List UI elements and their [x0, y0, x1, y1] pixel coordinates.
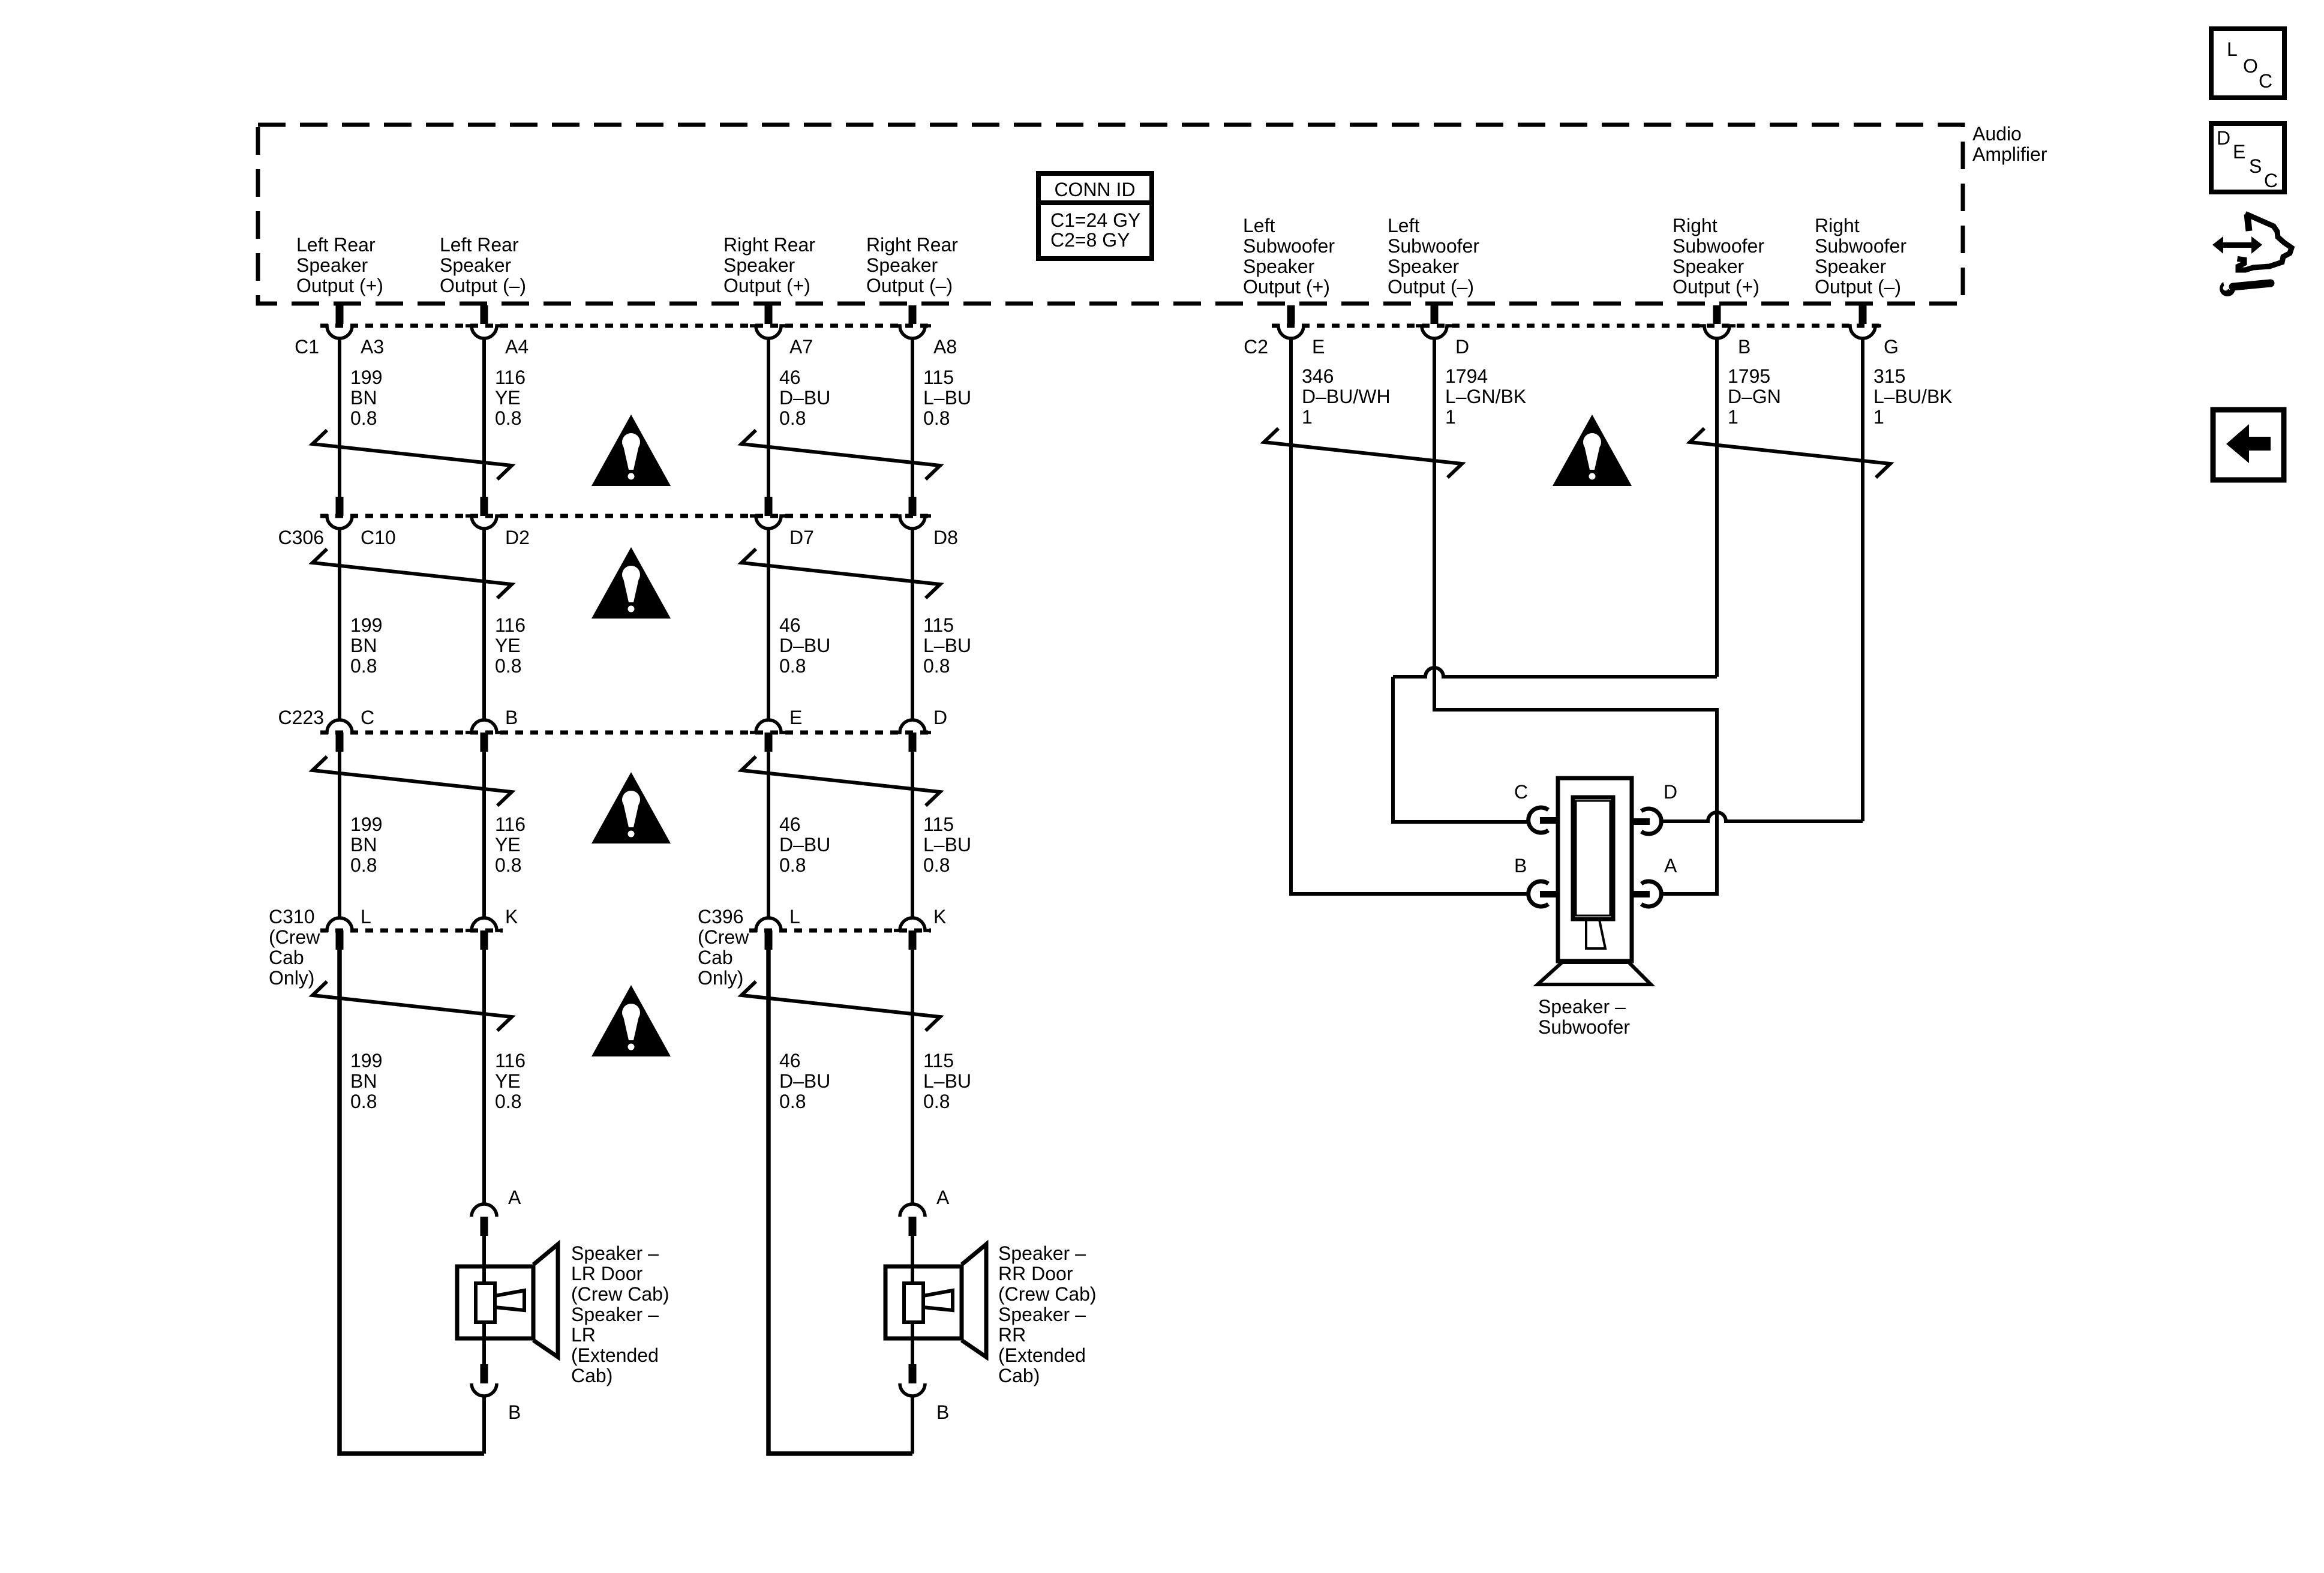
svg-text:Left: Left — [1388, 215, 1419, 236]
amp output terminal pin at x=2391 — [1431, 305, 1439, 324]
wire label 46 D–BU 0.8 — [779, 367, 830, 429]
svg-text:0.8: 0.8 — [350, 854, 377, 876]
icon LOC box (top right) — [2211, 29, 2284, 98]
svg-text:Speaker: Speaker — [1815, 256, 1887, 277]
svg-text:Left Rear: Left Rear — [296, 234, 376, 256]
svg-text:B: B — [1514, 855, 1527, 876]
wire segment x=1521 C306 to C223 — [911, 528, 914, 721]
svg-text:Speaker: Speaker — [723, 254, 795, 276]
svg-text:BN: BN — [350, 1070, 377, 1092]
svg-text:RR: RR — [998, 1324, 1026, 1346]
wire below pin B to bottom loop — [911, 1395, 914, 1454]
connector C396 dashed line — [749, 929, 931, 933]
svg-text:0.8: 0.8 — [779, 407, 806, 429]
svg-text:LR Door: LR Door — [571, 1263, 643, 1284]
svg-text:Left Rear: Left Rear — [440, 234, 519, 256]
svg-text:Speaker: Speaker — [440, 254, 512, 276]
wire label 1794 L–GN/BK 1 — [1445, 365, 1526, 428]
svg-text:1: 1 — [1728, 406, 1739, 428]
svg-text:116: 116 — [495, 367, 526, 388]
svg-text:0.8: 0.8 — [350, 1091, 377, 1112]
wire segment x=807 C223 to C310/C396 — [482, 752, 486, 918]
svg-text:Speaker: Speaker — [1243, 256, 1315, 277]
connector designator C310 (Crew Cab Only) — [269, 906, 320, 989]
svg-text:B: B — [936, 1401, 949, 1423]
connector C306 terminal at x=1281 — [765, 497, 773, 516]
svg-text:0.8: 0.8 — [923, 407, 950, 429]
svg-text:RR Door: RR Door — [998, 1263, 1073, 1284]
amp output terminal pin at x=3105 — [1859, 305, 1867, 324]
wire label 1795 D–GN 1 — [1728, 365, 1781, 428]
connector C306 terminal at x=566 — [336, 497, 344, 516]
speaker LR symbol — [457, 1244, 558, 1357]
amp pin function label at x=494 — [296, 234, 383, 296]
svg-text:A8: A8 — [933, 336, 957, 358]
speaker connector pin A at x=1521 — [900, 1204, 925, 1217]
svg-text:Amplifier: Amplifier — [1972, 143, 2047, 165]
label Audio Amplifier — [1972, 123, 2047, 165]
svg-text:C: C — [2264, 170, 2278, 191]
wire segment x=1281 C306 to C223 — [767, 528, 770, 721]
svg-text:Right: Right — [1673, 215, 1718, 236]
svg-text:C2: C2 — [1244, 336, 1268, 358]
svg-text:Cab: Cab — [698, 947, 733, 968]
svg-text:C1=24 GY: C1=24 GY — [1050, 209, 1140, 231]
svg-text:YE: YE — [495, 834, 521, 855]
wire segment x=566 C223 to C310/C396 — [338, 752, 341, 918]
wire 199 BN from C310-L down to bottom loop — [340, 950, 484, 1454]
svg-text:Subwoofer: Subwoofer — [1243, 235, 1335, 257]
twisted pair marker wires 199/116 — [313, 430, 512, 479]
svg-text:Speaker –: Speaker – — [571, 1304, 659, 1325]
svg-text:Speaker –: Speaker – — [998, 1242, 1086, 1264]
warning triangle note (row 2) — [591, 547, 671, 619]
svg-text:Speaker: Speaker — [1388, 256, 1460, 277]
connector C310/C396 terminal at x=807 — [466, 918, 503, 930]
wire label 46 D–BU 0.8 — [779, 614, 830, 677]
svg-text:(Crew: (Crew — [269, 926, 320, 948]
svg-text:C2=8 GY: C2=8 GY — [1050, 229, 1130, 251]
svg-text:Left: Left — [1243, 215, 1275, 236]
svg-text:E: E — [1312, 336, 1325, 358]
amp output terminal pin at x=1521 — [909, 305, 917, 324]
subwoofer pin C — [1529, 807, 1548, 833]
amp pin function label at x=2072 — [1243, 215, 1335, 298]
warning triangle note (row 3) — [591, 772, 671, 843]
wire label 115 L–BU 0.8 — [923, 614, 971, 677]
svg-text:199: 199 — [350, 614, 382, 636]
wire 1794 L-GN/BK from C2-D down then right and down to subwoofer pin A — [1434, 338, 1717, 894]
svg-text:A3: A3 — [361, 336, 384, 358]
svg-text:O: O — [2243, 55, 2258, 77]
twisted pair marker row 3 right — [741, 757, 940, 806]
svg-text:L–BU: L–BU — [923, 834, 971, 855]
svg-text:C: C — [1514, 781, 1528, 803]
svg-text:116: 116 — [495, 614, 526, 636]
svg-text:0.8: 0.8 — [779, 1091, 806, 1112]
svg-text:CONN ID: CONN ID — [1054, 179, 1135, 200]
connector C310/C396 terminal at x=1281 — [750, 918, 787, 930]
svg-text:0.8: 0.8 — [923, 854, 950, 876]
twisted pair marker wires 346/1794 — [1264, 428, 1462, 478]
svg-text:D8: D8 — [933, 527, 958, 548]
svg-text:D: D — [1455, 336, 1469, 358]
wire label 115 L–BU 0.8 — [923, 1050, 971, 1112]
svg-text:46: 46 — [779, 813, 801, 835]
svg-text:Right Rear: Right Rear — [866, 234, 958, 256]
svg-text:D–BU: D–BU — [779, 387, 830, 409]
connector C310 dashed line — [320, 929, 503, 933]
speaker connector pin A at x=807 — [472, 1204, 497, 1217]
svg-text:L–BU: L–BU — [923, 635, 971, 656]
svg-text:YE: YE — [495, 1070, 521, 1092]
svg-text:115: 115 — [923, 614, 954, 636]
wire label 46 D–BU 0.8 — [779, 1050, 830, 1112]
svg-text:0.8: 0.8 — [923, 1091, 950, 1112]
wire below pin B to bottom loop — [482, 1395, 486, 1454]
amp pin function label at x=2788 — [1673, 215, 1764, 298]
svg-text:Speaker –: Speaker – — [1538, 996, 1626, 1017]
svg-text:BN: BN — [350, 387, 377, 409]
svg-text:1: 1 — [1302, 406, 1313, 428]
svg-text:(Crew: (Crew — [698, 926, 749, 948]
twisted pair marker row 2 left — [313, 549, 512, 598]
svg-text:Cab): Cab) — [998, 1365, 1040, 1386]
svg-text:Output (–): Output (–) — [440, 275, 526, 296]
svg-text:Speaker: Speaker — [296, 254, 368, 276]
wire segment x=566 amp to C306 — [338, 338, 341, 497]
amp output terminal pin at x=1281 — [765, 305, 773, 324]
svg-text:E: E — [2233, 141, 2245, 163]
svg-text:Subwoofer: Subwoofer — [1673, 235, 1764, 257]
amp output terminal pin at x=566 — [336, 305, 344, 324]
svg-text:Audio: Audio — [1972, 123, 2022, 145]
svg-text:0.8: 0.8 — [350, 655, 377, 677]
svg-text:Output (–): Output (–) — [1815, 276, 1901, 298]
connector C223 terminal at x=807 — [466, 720, 503, 733]
svg-text:0.8: 0.8 — [350, 407, 377, 429]
svg-text:L–GN/BK: L–GN/BK — [1445, 386, 1526, 407]
wire label 199 BN 0.8 — [350, 1050, 382, 1112]
svg-text:G: G — [1884, 336, 1899, 358]
icon DESC box — [2211, 124, 2284, 192]
connector designator C396 (Crew Cab Only) — [698, 906, 749, 989]
svg-text:0.8: 0.8 — [495, 407, 521, 429]
svg-text:D7: D7 — [789, 527, 814, 548]
svg-text:Speaker: Speaker — [1673, 256, 1744, 277]
svg-text:(Extended: (Extended — [571, 1344, 659, 1366]
svg-text:C: C — [2259, 70, 2272, 92]
warning triangle note (row 1 right) — [1553, 415, 1632, 486]
svg-text:115: 115 — [923, 813, 954, 835]
svg-text:Output (+): Output (+) — [296, 275, 383, 296]
svg-text:B: B — [505, 707, 518, 728]
subwoofer speaker symbol — [1538, 778, 1651, 984]
svg-text:B: B — [508, 1401, 521, 1423]
svg-text:Only): Only) — [698, 967, 743, 989]
wire segment x=1281 C223 to C310/C396 — [767, 752, 770, 918]
wire label 199 BN 0.8 — [350, 367, 382, 429]
svg-text:46: 46 — [779, 367, 801, 388]
svg-text:L: L — [789, 906, 800, 927]
icon vehicle-front with arrow and wrench — [2212, 214, 2292, 296]
svg-text:115: 115 — [923, 1050, 954, 1071]
svg-text:C10: C10 — [361, 527, 396, 548]
svg-text:K: K — [505, 906, 518, 927]
svg-text:346: 346 — [1302, 365, 1334, 387]
connector C1 dashed line — [320, 324, 931, 328]
svg-text:B: B — [1738, 336, 1750, 358]
svg-text:115: 115 — [923, 367, 954, 388]
speaker connector pin B at x=807 — [481, 1364, 488, 1383]
label speaker LR — [571, 1242, 669, 1386]
svg-text:D–BU: D–BU — [779, 1070, 830, 1092]
wire label 199 BN 0.8 — [350, 813, 382, 876]
wire 116 YE from C310-K down to speaker connector A — [482, 950, 486, 1205]
wire below speaker — [482, 1337, 486, 1365]
svg-text:Right Rear: Right Rear — [723, 234, 815, 256]
wire label 346 D–BU/WH 1 — [1302, 365, 1391, 428]
connector C223 dashed line — [320, 731, 931, 735]
svg-text:L–BU: L–BU — [923, 1070, 971, 1092]
twisted pair marker row 3 left — [313, 757, 512, 806]
speaker RR symbol — [885, 1244, 986, 1357]
svg-text:D–BU: D–BU — [779, 635, 830, 656]
svg-text:Subwoofer: Subwoofer — [1388, 235, 1479, 257]
twisted pair marker row 4 right — [741, 981, 940, 1031]
amp pin function label at x=2313 — [1388, 215, 1479, 298]
subwoofer pin A — [1641, 881, 1661, 906]
svg-text:C396: C396 — [698, 906, 744, 927]
amp output terminal pin at x=2152 — [1287, 305, 1295, 324]
twisted pair marker wires 46/115 — [741, 430, 940, 479]
wire 315 L-BU/BK from C2-G down then left (hops wire 1794 vertical) to subwoofer pin D — [1861, 338, 1864, 821]
warning triangle note (row 1 left) — [591, 415, 671, 486]
svg-text:A: A — [508, 1187, 521, 1208]
connector C310/C396 terminal at x=1521 — [894, 918, 931, 930]
svg-text:BN: BN — [350, 834, 377, 855]
svg-text:Right: Right — [1815, 215, 1860, 236]
svg-text:A: A — [1664, 855, 1677, 876]
wire label 115 L–BU 0.8 — [923, 367, 971, 429]
svg-text:(Crew Cab): (Crew Cab) — [998, 1283, 1097, 1305]
svg-text:YE: YE — [495, 635, 521, 656]
warning triangle note (row 4) — [591, 985, 671, 1056]
amp output terminal pin at x=2862 — [1713, 305, 1721, 324]
svg-text:Cab: Cab — [269, 947, 304, 968]
svg-text:0.8: 0.8 — [495, 655, 521, 677]
wire label 115 L–BU 0.8 — [923, 813, 971, 876]
connector C306 terminal at x=807 — [481, 497, 488, 516]
svg-text:46: 46 — [779, 614, 801, 636]
connector C310/C396 terminal at x=566 — [321, 918, 358, 930]
svg-text:D: D — [933, 707, 947, 728]
svg-text:116: 116 — [495, 813, 526, 835]
svg-text:199: 199 — [350, 813, 382, 835]
svg-text:C: C — [361, 707, 374, 728]
svg-text:1794: 1794 — [1445, 365, 1488, 387]
svg-text:Output (+): Output (+) — [723, 275, 810, 296]
svg-text:46: 46 — [779, 1050, 801, 1071]
svg-text:116: 116 — [495, 1050, 526, 1071]
svg-text:E: E — [789, 707, 802, 728]
svg-text:YE: YE — [495, 387, 521, 409]
wire segment x=1521 C223 to C310/C396 — [911, 752, 914, 918]
svg-text:A: A — [936, 1187, 950, 1208]
svg-text:(Crew Cab): (Crew Cab) — [571, 1283, 669, 1305]
subwoofer pin B — [1529, 881, 1548, 906]
connector C306 terminal at x=1521 — [909, 497, 917, 516]
wire label 199 BN 0.8 — [350, 614, 382, 677]
wire 46 D-BU from C396-L down to bottom loop — [768, 950, 912, 1454]
label speaker RR — [998, 1242, 1097, 1386]
wire label 116 YE 0.8 — [495, 367, 526, 429]
svg-text:(Extended: (Extended — [998, 1344, 1086, 1366]
svg-text:0.8: 0.8 — [923, 655, 950, 677]
wire label 116 YE 0.8 — [495, 614, 526, 677]
subwoofer pin D — [1641, 809, 1661, 834]
svg-text:K: K — [933, 906, 946, 927]
amp output terminal pin at x=807 — [481, 305, 488, 324]
connector C2 dashed line — [1272, 324, 1881, 328]
wire segment x=1521 amp to C306 — [911, 338, 914, 497]
speaker connector pin B at x=1521 — [909, 1364, 917, 1383]
svg-text:Output (+): Output (+) — [1673, 276, 1759, 298]
svg-text:1: 1 — [1445, 406, 1456, 428]
CONN ID table — [1038, 173, 1152, 259]
svg-text:L: L — [361, 906, 371, 927]
svg-text:1795: 1795 — [1728, 365, 1770, 387]
twisted pair marker row 4 left — [313, 981, 512, 1031]
svg-text:A4: A4 — [505, 336, 529, 358]
amp pin function label at x=733 — [440, 234, 526, 296]
svg-text:0.8: 0.8 — [779, 854, 806, 876]
svg-text:0.8: 0.8 — [495, 854, 521, 876]
svg-text:Subwoofer: Subwoofer — [1815, 235, 1906, 257]
svg-text:L–BU/BK: L–BU/BK — [1873, 386, 1953, 407]
wire segment x=807 amp to C306 — [482, 338, 486, 497]
wire label 116 YE 0.8 — [495, 1050, 526, 1112]
svg-text:Output (–): Output (–) — [866, 275, 953, 296]
svg-text:Cab): Cab) — [571, 1365, 612, 1386]
audio amplifier U1 dashed outline box — [258, 125, 1963, 304]
svg-text:C306: C306 — [278, 527, 325, 548]
connector C223 terminal at x=566 — [321, 720, 358, 733]
svg-text:Speaker –: Speaker – — [571, 1242, 659, 1264]
svg-text:L: L — [2227, 38, 2238, 60]
svg-text:L–BU: L–BU — [923, 387, 971, 409]
wire segment x=566 C306 to C223 — [338, 528, 341, 721]
svg-text:C1: C1 — [295, 336, 319, 358]
svg-text:D: D — [2217, 127, 2230, 149]
svg-text:D: D — [1664, 781, 1677, 803]
svg-text:1: 1 — [1873, 406, 1884, 428]
svg-text:A7: A7 — [789, 336, 813, 358]
amp pin function label at x=1444 — [866, 234, 958, 296]
wire label 116 YE 0.8 — [495, 813, 526, 876]
amp pin function label at x=3025 — [1815, 215, 1906, 298]
svg-text:199: 199 — [350, 367, 382, 388]
wire 115 L-BU from C396-K down to speaker connector A — [911, 950, 914, 1205]
wire label 315 L–BU/BK 1 — [1873, 365, 1953, 428]
twisted pair marker wires 1795/315 — [1690, 428, 1890, 478]
svg-text:D–BU/WH: D–BU/WH — [1302, 386, 1391, 407]
svg-text:Subwoofer: Subwoofer — [1538, 1016, 1630, 1038]
svg-text:Speaker –: Speaker – — [998, 1304, 1086, 1325]
connector C223 terminal at x=1281 — [750, 720, 787, 733]
wire segment x=1281 amp to C306 — [767, 338, 770, 497]
wire label 46 D–BU 0.8 — [779, 813, 830, 876]
twisted pair marker row 2 right — [741, 549, 940, 598]
svg-text:C223: C223 — [278, 707, 325, 728]
wire into speaker — [482, 1235, 486, 1268]
svg-text:0.8: 0.8 — [779, 655, 806, 677]
wire 1795 D-GN from C2-B down, left (hops wire 1794), down to subwoofer pin C — [1715, 338, 1719, 677]
amp pin function label at x=1206 — [723, 234, 815, 296]
svg-text:D2: D2 — [505, 527, 530, 548]
svg-text:0.8: 0.8 — [495, 1091, 521, 1112]
svg-text:Output (–): Output (–) — [1388, 276, 1474, 298]
svg-text:BN: BN — [350, 635, 377, 656]
svg-text:315: 315 — [1873, 365, 1905, 387]
svg-text:LR: LR — [571, 1324, 596, 1346]
svg-text:S: S — [2249, 155, 2262, 177]
svg-text:D–GN: D–GN — [1728, 386, 1781, 407]
wire below speaker — [911, 1337, 914, 1365]
connector C306 dashed line — [320, 514, 931, 518]
svg-text:199: 199 — [350, 1050, 382, 1071]
svg-text:D–BU: D–BU — [779, 834, 830, 855]
svg-text:Speaker: Speaker — [866, 254, 938, 276]
svg-text:Only): Only) — [269, 967, 314, 989]
svg-text:C310: C310 — [269, 906, 315, 927]
svg-text:Output (+): Output (+) — [1243, 276, 1330, 298]
label Speaker - Subwoofer — [1538, 996, 1630, 1038]
wire into speaker — [911, 1235, 914, 1268]
icon back-arrow box — [2213, 410, 2284, 480]
wire segment x=807 C306 to C223 — [482, 528, 486, 721]
connector C223 terminal at x=1521 — [894, 720, 931, 733]
wire 346 D-BU/WH from C2-E down to subwoofer pin B — [1291, 338, 1528, 894]
